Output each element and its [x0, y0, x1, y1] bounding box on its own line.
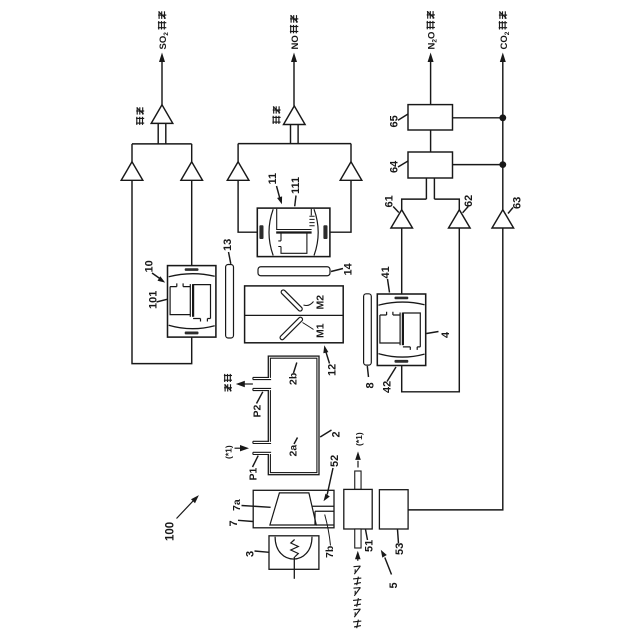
- port P2: [253, 378, 271, 390]
- wire output N2O: [430, 62, 432, 105]
- amplifier 62: [449, 210, 471, 228]
- detector 11: [257, 208, 330, 257]
- svg-text:52: 52: [329, 455, 341, 467]
- svg-text:7a: 7a: [231, 499, 243, 511]
- wire NO right input: [330, 180, 351, 232]
- wire output CO2: [502, 61, 504, 63]
- svg-text:51: 51: [364, 540, 376, 552]
- svg-text:62: 62: [463, 195, 475, 207]
- lamp lead: [293, 557, 295, 579]
- arrow SO2 out: [159, 53, 165, 63]
- amplifier 63: [492, 210, 514, 228]
- svg-text:61: 61: [384, 195, 396, 207]
- wire 65 to CO2 node: [453, 117, 503, 119]
- svg-text:42: 42: [382, 381, 394, 393]
- box 53: [379, 490, 408, 529]
- label gensan(subtract) NO: [272, 116, 280, 124]
- svg-text:65: 65: [389, 115, 401, 127]
- wire SO2 right input: [191, 180, 193, 265]
- svg-text:7: 7: [228, 520, 240, 526]
- svg-text:M2: M2: [315, 295, 327, 310]
- amplifier SO2 right: [181, 162, 203, 181]
- svg-text:5: 5: [388, 582, 400, 588]
- svg-text:41: 41: [380, 266, 392, 278]
- svg-text:8: 8: [365, 382, 377, 388]
- filament zigzag: [291, 540, 299, 558]
- trapezoid bottom extension: [316, 524, 334, 526]
- svg-text:3: 3: [245, 551, 257, 557]
- wire 65-64 link: [430, 130, 432, 152]
- svg-text:2b: 2b: [288, 373, 300, 385]
- svg-text:M1: M1: [315, 323, 327, 338]
- arrow N2O out: [428, 53, 434, 63]
- svg-text:14: 14: [343, 262, 355, 275]
- svg-text:13: 13: [222, 239, 234, 251]
- node dot upper: [499, 114, 506, 121]
- exhaust arrow at P2: [244, 383, 253, 385]
- op-amp subtractor SO2: [151, 105, 173, 124]
- amplifier SO2 left: [121, 162, 143, 181]
- svg-text:2: 2: [331, 431, 343, 437]
- detector 4: [377, 294, 425, 366]
- svg-text:100: 100: [165, 522, 177, 541]
- inlet arrow at P1 (*1): [235, 447, 241, 449]
- svg-text:10: 10: [144, 260, 156, 272]
- wire NO left input: [238, 180, 257, 232]
- wire SO2 left loop: [132, 180, 192, 363]
- wire output NO: [293, 62, 295, 106]
- box 64: [408, 152, 453, 178]
- filter 14: [258, 267, 330, 276]
- arrow (*1) up: [357, 461, 359, 468]
- port P1: [253, 442, 271, 454]
- label gensan(subtract) SO2: [136, 117, 144, 125]
- detector 10: [168, 266, 216, 338]
- lamp 3 box: [269, 536, 319, 570]
- svg-text:53: 53: [394, 543, 406, 555]
- amplifier 61: [391, 210, 413, 228]
- mirror M2: [280, 289, 303, 312]
- pipe stub lower: [355, 529, 361, 548]
- label sample gas: [353, 620, 361, 629]
- wire SO2 subtractor pedestal: [157, 123, 159, 143]
- svg-text:NO: NO: [290, 35, 301, 49]
- svg-text:(*1): (*1): [224, 445, 234, 459]
- amplifier NO left: [227, 162, 249, 181]
- sample cell 2 inner wall: [270, 358, 317, 472]
- svg-text:P2: P2: [252, 404, 264, 417]
- svg-text:11: 11: [267, 173, 279, 185]
- mirror M1: [279, 316, 303, 340]
- svg-text:4: 4: [440, 331, 452, 338]
- lamp dome: [275, 537, 312, 559]
- mirror unit 12 box: [245, 286, 344, 343]
- arrow CO2 out: [500, 53, 506, 63]
- pump 51: [344, 489, 372, 529]
- sample cell 2 outer: [268, 356, 319, 475]
- label haiki(exhaust): [224, 384, 232, 391]
- pipe stub upper: [355, 471, 361, 489]
- node dot lower: [499, 161, 506, 168]
- wire 62 to detector 4 bottom: [402, 228, 460, 392]
- wire 64 bottom fan: [425, 178, 427, 199]
- filter 13: [226, 265, 234, 339]
- op-amp subtractor NO: [284, 106, 306, 125]
- wire NO subtractor pedestal: [290, 125, 292, 144]
- svg-text:101: 101: [148, 291, 160, 309]
- wire 61 to detector 4 top: [401, 228, 403, 294]
- svg-text:111: 111: [290, 177, 302, 194]
- svg-text:12: 12: [327, 364, 339, 376]
- svg-text:7b: 7b: [324, 546, 336, 558]
- slit 7b lines: [312, 505, 334, 507]
- wire CO2 column: [502, 62, 504, 210]
- amplifier NO right: [340, 162, 362, 181]
- svg-text:(*1): (*1): [354, 432, 364, 446]
- svg-text:2a: 2a: [288, 445, 300, 457]
- box 65: [408, 105, 453, 130]
- wire output SO2: [161, 62, 163, 105]
- reflector 7a trapezoid: [270, 493, 316, 525]
- svg-text:63: 63: [512, 197, 524, 209]
- housing 7: [253, 490, 334, 528]
- arrow NO out: [291, 53, 297, 63]
- svg-text:P1: P1: [248, 467, 260, 480]
- sample gas arrow: [357, 558, 359, 561]
- wire 64 to CO2 node: [453, 164, 503, 166]
- filter 8: [364, 294, 372, 365]
